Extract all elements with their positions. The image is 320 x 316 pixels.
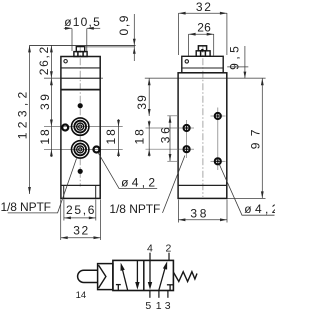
svg-text:32: 32: [73, 223, 88, 237]
wire flange inset left: [63, 185, 65, 198]
svg-text:3: 3: [165, 300, 171, 312]
dim 18 left-view right line: [118, 119, 120, 157]
screw port side top-right: [215, 113, 221, 119]
node port row ext 149.4: [44, 148, 123, 150]
pin dot lower: [78, 169, 83, 174]
port stub 4: [149, 253, 151, 261]
123,2 arrows: [28, 45, 31, 52]
svg-text:ø10,5: ø10,5: [64, 15, 100, 29]
node extension line2 left: [44, 77, 103, 79]
wire interior line3: [61, 89, 100, 91]
spring return: [174, 272, 197, 282]
dim 38 ext: [177, 200, 179, 223]
leader 1/8 NPTF centre: [163, 156, 185, 213]
36 arrows: [169, 116, 172, 123]
node port row ext 126.5: [44, 126, 123, 128]
centerline front view: [79, 46, 81, 187]
dimension top reference line (button travel plane): [29, 44, 135, 46]
node extension line2 right long: [145, 77, 266, 79]
32 bottom arrows: [61, 236, 68, 239]
arrows: [28, 12, 264, 239]
dim 25,6 ext: [63, 200, 65, 221]
dim 32 bottom ext: [60, 200, 62, 241]
svg-text:0,9: 0,9: [117, 15, 131, 35]
screw port side low-left: [184, 146, 190, 152]
cell2 flow arrow 1->2: [159, 268, 165, 291]
body side view main: [178, 73, 227, 199]
26,2 arrows: [50, 45, 53, 52]
screw port side bottom-right: [215, 158, 221, 164]
wire interior line1: [61, 67, 100, 69]
dim 25,6 line: [64, 217, 96, 219]
18 mid arrows (outside): [148, 121, 151, 128]
button cap front view: [76, 47, 84, 52]
actuator box: [98, 264, 113, 290]
svg-text:25,6: 25,6: [66, 203, 95, 217]
small port right (4,2): [94, 147, 100, 153]
port P1 front: [72, 118, 89, 135]
dim 36 line: [169, 116, 171, 161]
dim 32 top ext: [178, 13, 180, 55]
18 left-view right arrows (outside): [117, 120, 120, 127]
leader o4,2 right: [219, 165, 274, 216]
port stub 3: [167, 291, 169, 298]
svg-text:18: 18: [104, 129, 118, 145]
cell1 blocked port T: [116, 284, 121, 286]
97 arrows: [261, 78, 264, 85]
ext rows to 36 dim: [167, 115, 178, 117]
port P2 front: [72, 141, 89, 158]
18 left arrows (outside): [50, 149, 53, 156]
svg-text:2: 2: [165, 242, 171, 254]
svg-text:26: 26: [197, 21, 211, 35]
32 top arrows: [179, 12, 186, 15]
port stub 2: [168, 253, 170, 261]
39 left arrows: [50, 78, 53, 85]
svg-text:1: 1: [156, 300, 162, 312]
dim 10,5 line: [64, 27, 72, 29]
dim 32 bottom line: [61, 237, 101, 239]
dim 123,2 line: [29, 45, 31, 194]
dim 10,5 ext lines: [71, 29, 73, 51]
svg-text:5: 5: [145, 300, 151, 312]
wire interior line2: [61, 77, 100, 79]
port row ticks side view: [179, 127, 194, 129]
svg-text:4: 4: [147, 242, 153, 254]
cell1 flow arrow 1->4: [122, 267, 128, 290]
push button pill: [78, 270, 98, 282]
valve body square 2-position: [113, 260, 173, 290]
small port left (1/8 NPTF): [62, 125, 68, 131]
dim 38 line: [178, 219, 227, 221]
svg-text:32: 32: [196, 0, 211, 14]
ext rows to 18 mid dim: [146, 127, 179, 129]
wire flange inset right: [95, 185, 97, 198]
dim 0,9 line: [133, 14, 135, 61]
cell1 passage 2->3: [136, 260, 138, 282]
cell2 blocked port T: [167, 284, 174, 286]
0,9 arrows: [133, 39, 136, 46]
10,5 arrows: [65, 27, 72, 30]
dim chain left line: [50, 45, 52, 157]
centerline side view: [202, 46, 204, 197]
9,5 arrows: [244, 72, 247, 79]
leader o4,2 left: [98, 153, 157, 189]
svg-text:39: 39: [135, 95, 149, 110]
svg-text:1/8 NPTF: 1/8 NPTF: [1, 200, 52, 214]
svg-text:26,2: 26,2: [37, 46, 51, 75]
25,6 arrows: [64, 217, 71, 220]
svg-text:1/8 NPTF: 1/8 NPTF: [109, 202, 160, 216]
wire flange line front: [61, 184, 100, 186]
screw hole front: [64, 60, 67, 63]
dim 97 line: [261, 78, 263, 198]
38 arrows: [178, 218, 185, 221]
svg-text:18: 18: [133, 129, 147, 145]
button cap side view: [198, 46, 206, 51]
port stub 5: [149, 291, 151, 298]
svg-text:ø4,2: ø4,2: [121, 175, 155, 189]
body front view: [61, 57, 100, 199]
body side view top block: [182, 56, 223, 73]
screw hole side: [185, 60, 188, 63]
dim 18 mid line: [148, 121, 150, 157]
dim 26 ext: [188, 34, 190, 56]
svg-text:9,5: 9,5: [228, 46, 242, 70]
port stub 1: [158, 291, 160, 298]
screw port side mid-left: [184, 125, 190, 131]
26 arrows: [189, 33, 196, 36]
39 right arrows: [148, 78, 151, 85]
dim 32 top line: [179, 12, 227, 14]
divider: [143, 260, 145, 290]
dim 9,5 ext: [227, 66, 248, 68]
svg-text:18: 18: [38, 129, 52, 145]
dim 97 ext bottom: [227, 197, 265, 199]
leader 1/8 NPTF left: [8, 153, 275, 215]
wire flange line side: [178, 184, 227, 186]
port column centerline left: [186, 120, 188, 158]
pin dot upper: [78, 103, 83, 108]
dim 39 right line: [148, 78, 150, 116]
dim 9,5 line: [244, 46, 246, 78]
svg-text:14: 14: [76, 290, 87, 301]
port column centerline right: [217, 108, 219, 171]
actuator chevron: [99, 265, 106, 288]
cell2 passage 4->5: [149, 260, 151, 282]
dim 26 line: [189, 33, 214, 35]
